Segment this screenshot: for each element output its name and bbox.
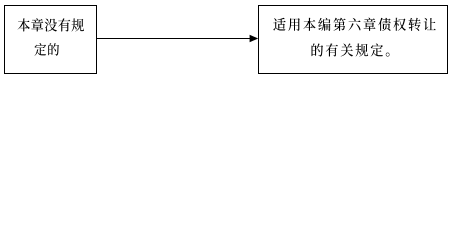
left box text line 2: 定的 (35, 43, 60, 56)
arrow wire (97, 38, 251, 40)
left box (5, 6, 97, 74)
right box (259, 6, 448, 74)
arrowhead (250, 35, 259, 43)
right box text line 2: 的有关规定。 (312, 43, 390, 56)
left box text line 1: 本章没有规 (18, 18, 84, 31)
right box text line 1: 适用本编第六章债权转让 (273, 18, 436, 31)
